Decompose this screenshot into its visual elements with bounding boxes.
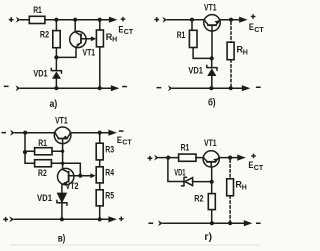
dashed wire load top g [229,160,231,179]
node A junction a [54,18,58,22]
arrowhead bottom rail g [244,220,253,226]
junction Rh bottom a [98,86,102,90]
input arrow chevron b [162,17,167,23]
svg-text:E: E [248,160,253,171]
junction R1 left v [23,150,27,154]
wire R1 to VT1 g [196,157,204,159]
transistor VT1 a [70,20,91,48]
svg-text:в): в) [58,234,66,245]
minus sign bottom-left a [4,86,9,88]
wire Rh top a [99,20,101,30]
resistor Rh a [96,30,103,47]
wire top rail g right [219,157,238,159]
arrowhead bottom rail v [108,216,117,222]
node Rh junction a [98,18,102,22]
svg-text:б): б) [208,97,216,109]
scan shadow bottom [10,244,260,246]
zener diode VD1 v [57,193,67,219]
junction VD1 bottom v [60,217,64,221]
svg-text:H: H [112,37,117,44]
label E_ct g [248,160,263,172]
wire Rh bottom a [99,47,101,88]
junction input bus top v [23,131,27,135]
wire emitter to node B a [56,47,76,57]
plus sign output b [251,14,256,19]
resistor R2 g [208,194,215,210]
input arrow chevron bottom g [158,220,163,226]
svg-text:CT: CT [254,165,264,172]
junction load bottom g [228,221,232,225]
wire R2 bottom a [55,48,57,58]
input arrow chevron g [154,155,159,161]
svg-text:CT: CT [254,27,264,34]
junction VD1 left top g [166,156,170,160]
minus sign bottom-right b [256,87,261,89]
junction load top b [229,18,233,22]
arrowhead top rail b [239,17,248,23]
svg-text:CT: CT [122,140,132,147]
plus sign output g [251,154,256,159]
svg-text:R1: R1 [33,5,42,15]
label Rh a [106,32,117,44]
arrowhead bottom rail b [242,85,251,91]
wire bus to R1 v [25,150,35,152]
junction divider top v [98,131,102,135]
plus sign bottom-left v [3,217,8,222]
arrowhead top rail v [108,130,117,136]
plus sign bottom-right v [119,217,124,222]
wire top rail b left [167,19,204,21]
junction load bottom b [229,86,233,90]
plus sign output a [121,17,126,22]
resistor R5 v [96,190,103,206]
wire left bus v [25,133,35,164]
junction base node b [210,56,214,60]
input arrow chevron a [16,17,21,23]
label Rh b [237,45,248,57]
transistor VT1 v [54,127,71,144]
wire VT2 emitter down v [61,185,63,193]
dashed wire load bottom b [230,60,232,86]
input arrow chevron bottom v [9,216,14,222]
resistor R2 v [35,160,52,167]
svg-text:VD1: VD1 [33,68,47,78]
svg-text:R2: R2 [40,30,49,40]
plus sign input g [148,156,153,161]
plus sign input a [9,17,14,22]
wire VT2 base to R4 v [74,175,91,177]
minus sign bottom-left g [148,223,153,225]
wire R2 top a [55,20,57,31]
junction crossing v [61,162,64,165]
resistor R1 g [179,154,196,161]
svg-text:г): г) [204,232,212,243]
svg-text:R4: R4 [105,168,114,178]
potentiometer wiper arrow into Rh a [91,36,96,41]
dashed wire load bottom g [229,196,231,221]
junction R1 top b [190,18,194,22]
junction R2 bottom g [210,221,214,225]
transistor VT1 b [204,15,221,31]
label E_ct v [117,135,132,147]
svg-text:а): а) [50,99,58,110]
minus sign bottom-right a [122,86,127,88]
wire top rail a [21,19,111,21]
minus sign output v [119,130,124,132]
svg-text:R2: R2 [194,193,203,203]
wire R2 bottom g [211,210,213,224]
transistor VT2 v [57,168,73,184]
resistor R1 b [189,30,197,47]
junction VD1 bottom b [209,86,213,90]
zener diode VD1 a [51,60,61,89]
svg-text:R1: R1 [38,138,47,148]
dashed wire load top b [230,22,232,42]
wire VT1 base down g [211,167,213,182]
junction load top g [228,156,232,160]
svg-text:H: H [242,184,247,191]
resistor R1 a [29,16,45,23]
wire base to R2 g [211,182,213,194]
wire divider top v [99,133,101,144]
svg-text:VD1: VD1 [174,167,185,177]
input arrow chevron bottom b [168,85,173,91]
wire VD1 left vertical g [168,158,183,182]
svg-text:R1: R1 [181,142,190,152]
svg-text:R3: R3 [105,145,114,155]
svg-text:E: E [117,135,122,146]
svg-text:E: E [249,22,254,33]
junction R5 bottom v [98,217,102,221]
svg-text:R5: R5 [105,191,114,201]
wire R1 right to VT1 base v [52,150,63,152]
junction base R1 v [61,150,64,153]
wire R2 right to corner v [51,163,80,175]
wire bottom rail a [20,87,111,89]
svg-text:VT2: VT2 [66,181,79,191]
wire VT1 base down v [62,144,64,170]
svg-text:VT1: VT1 [204,3,217,13]
junction VD1 bottom a [54,86,58,90]
wire bottom rail v [14,218,110,220]
wire R4 to R5 v [99,183,101,190]
junction VT2 base v [78,174,82,178]
transistor VT1 g [203,151,219,167]
svg-text:H: H [243,49,248,56]
resistor Rh g [227,179,234,196]
wire R1 top b [191,20,193,31]
plus sign input b [154,17,159,22]
resistor R1 v [35,148,52,155]
svg-text:VD1: VD1 [37,193,52,203]
zener diode VD1 g [181,177,211,186]
input arrow chevron bottom a [16,85,21,91]
label E_ct b [249,22,264,34]
svg-text:E: E [118,24,123,35]
node B junction a [54,55,58,59]
wire R3 to R4 v [99,160,101,167]
wire R1 bottom to base node b [193,48,212,59]
resistor R3 v [96,143,103,160]
potentiometer wiper arrow into R4 v [90,173,95,178]
arrowhead top rail a [109,17,118,23]
label E_ct a [118,24,133,36]
arrowhead bottom rail a [111,85,120,91]
svg-text:VD1: VD1 [188,65,203,75]
label Rh g [235,180,246,192]
minus sign bottom-left b [157,87,162,89]
minus sign input v [1,132,6,134]
wire top rail b right [220,19,239,21]
svg-text:VT1: VT1 [83,48,96,58]
resistor R4 v [96,167,103,183]
wire bottom rail g [163,222,244,224]
wire bottom rail b [173,87,243,89]
zener diode VD1 b [207,58,217,88]
wire R5 bottom v [99,206,101,219]
resistor R2 a [53,31,60,48]
resistor Rh b [227,42,234,60]
svg-text:VT1: VT1 [204,138,217,148]
wire top rail g left [159,157,179,159]
input arrow chevron v [10,130,15,136]
wire VT1 base down b [211,31,213,58]
svg-text:VT1: VT1 [55,116,68,126]
svg-text:CT: CT [124,29,134,36]
wire top rail v right [70,132,109,134]
node collector junction a [73,18,77,22]
svg-text:R2: R2 [38,168,47,178]
wire top rail v left [15,132,55,134]
minus sign bottom-right g [256,223,261,225]
arrowhead top rail g [237,155,246,161]
svg-text:R1: R1 [177,30,186,40]
junction base node g [210,180,214,184]
